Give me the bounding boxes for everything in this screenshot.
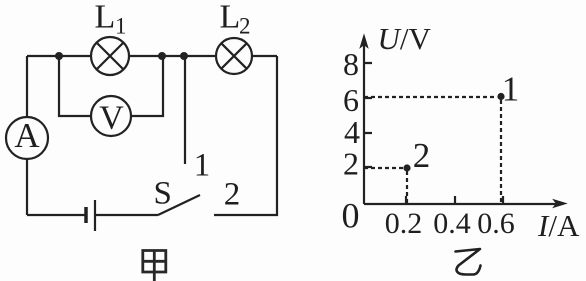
svg-text:8: 8 — [343, 46, 359, 82]
svg-text:2: 2 — [343, 146, 359, 182]
svg-text:1: 1 — [194, 148, 211, 184]
svg-text:S: S — [154, 176, 172, 212]
svg-text:L: L — [220, 0, 241, 36]
svg-text:V: V — [99, 100, 124, 137]
svg-text:A: A — [14, 116, 40, 155]
svg-text:L: L — [95, 0, 116, 36]
svg-text:0.2: 0.2 — [385, 207, 423, 240]
svg-text:2: 2 — [224, 177, 241, 213]
svg-text:U/V: U/V — [378, 21, 432, 56]
svg-text:0: 0 — [342, 196, 360, 236]
svg-text:2: 2 — [239, 14, 251, 39]
svg-text:1: 1 — [502, 70, 520, 109]
svg-text:I/A: I/A — [537, 208, 580, 243]
svg-text:0.6: 0.6 — [477, 207, 515, 240]
svg-text:2: 2 — [413, 136, 431, 175]
svg-text:6: 6 — [343, 82, 359, 118]
svg-text:0.4: 0.4 — [433, 207, 471, 240]
svg-text:1: 1 — [115, 14, 127, 39]
